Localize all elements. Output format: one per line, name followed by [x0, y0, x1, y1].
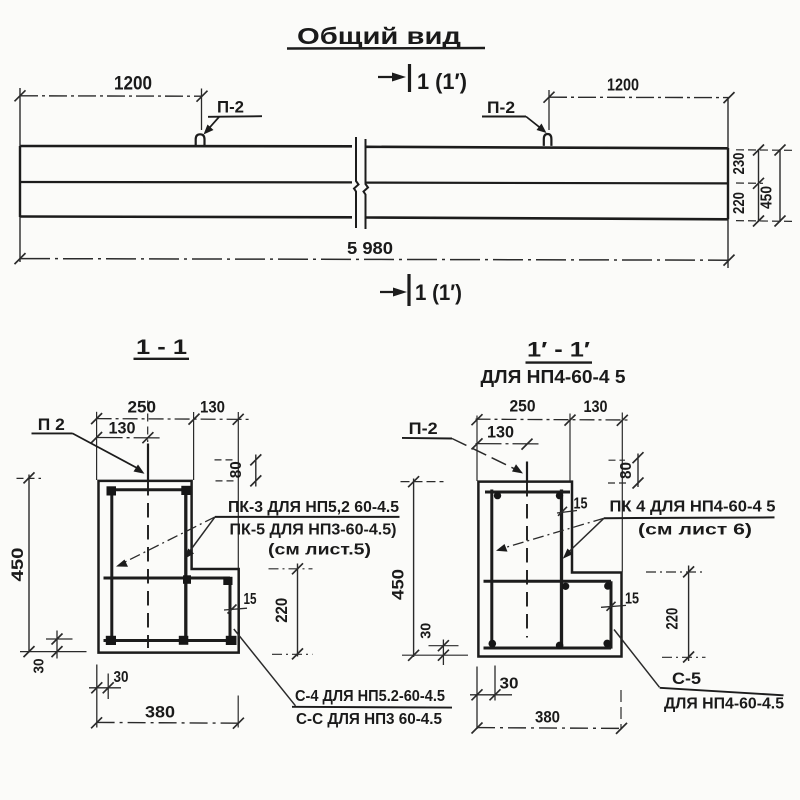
svg-text:15: 15: [244, 591, 257, 608]
labels ПК-3 / ПК-5 with leaders (section 1-1): [116, 499, 400, 567]
dimension 220 (section 1'-1'): [646, 566, 706, 663]
beam mid line: [20, 182, 728, 183]
svg-text:1200: 1200: [607, 75, 639, 95]
svg-text:1200: 1200: [114, 74, 152, 95]
stirrup mid bar (section 1-1): [104, 577, 231, 580]
svg-text:220: 220: [662, 608, 681, 630]
svg-text:130: 130: [109, 419, 136, 438]
dimension 380 (section 1'-1'): [472, 690, 628, 734]
rebar squares (section 1-1): [107, 486, 117, 495]
extension lines top dims (section 1-1): [96, 412, 98, 480]
stirrup mid bar (section 1'-1'): [484, 580, 612, 583]
svg-text:250: 250: [510, 397, 536, 416]
svg-text:220: 220: [272, 598, 291, 623]
svg-text:(см лист 6): (см лист 6): [638, 522, 752, 539]
svg-text:15: 15: [574, 496, 588, 513]
svg-text:Общий вид: Общий вид: [297, 23, 461, 49]
svg-text:П-2: П-2: [487, 99, 515, 117]
dimension 80 (section 1-1): [215, 454, 262, 486]
svg-text:П-2: П-2: [409, 420, 438, 438]
svg-text:ПК-3 ДЛЯ НП5,2 60-4.5: ПК-3 ДЛЯ НП5,2 60-4.5: [228, 499, 399, 516]
vertical center line (section 1'-1'): [526, 462, 528, 638]
dimension 30 lower-left vertical (section 1'-1'): [417, 623, 458, 665]
svg-text:380: 380: [145, 703, 175, 722]
dimension 380 (section 1-1): [91, 696, 244, 729]
svg-text:80: 80: [228, 461, 245, 478]
dimension 130 inner (section 1'-1'): [472, 423, 541, 450]
svg-text:С-4 ДЛЯ НП5.2-60-4.5: С-4 ДЛЯ НП5.2-60-4.5: [295, 688, 445, 705]
section 1'-1' concrete outline: [478, 482, 621, 657]
vertical center line (section 1-1): [147, 401, 149, 649]
stirrup lower-right leg (section 1-1): [229, 578, 232, 643]
svg-text:ДЛЯ НП4-60-4.5: ДЛЯ НП4-60-4.5: [664, 696, 784, 713]
dimension 80 (section 1'-1'): [608, 452, 644, 488]
dimension 15 (section 1-1): [224, 591, 257, 614]
label П 2 with leader (section 1-1): [32, 416, 145, 474]
stirrup top bar (section 1'-1'): [485, 491, 570, 494]
dimension 30 bottom (section 1-1): [89, 665, 129, 728]
svg-text:130: 130: [487, 423, 514, 442]
section 1-1 concrete outline: [99, 481, 239, 653]
lifting hook П-2 left: [196, 134, 205, 146]
svg-text:30: 30: [114, 669, 129, 686]
stirrup bottom bar (section 1-1): [104, 639, 232, 642]
dimension 15 upper (section 1'-1'): [557, 496, 588, 516]
svg-text:С-С ДЛЯ НП3 60-4.5: С-С ДЛЯ НП3 60-4.5: [296, 711, 442, 728]
title: Общий вид: [287, 23, 485, 49]
stirrup bottom bar (section 1'-1'): [484, 647, 612, 650]
dimension 450 (section 1'-1'): [388, 476, 468, 661]
label П-2 with leader (section 1'-1'): [402, 420, 523, 474]
stirrup left leg (section 1-1): [110, 488, 113, 643]
svg-text:1 (1′): 1 (1′): [417, 69, 467, 94]
stirrup right leg (section 1'-1'): [560, 490, 563, 649]
beam right edge + extension lines: [727, 97, 729, 268]
svg-text:450: 450: [759, 186, 776, 209]
lifting hook П-2 right: [544, 134, 552, 146]
svg-text:ДЛЯ НП4-60-4 5: ДЛЯ НП4-60-4 5: [481, 367, 626, 387]
svg-text:30: 30: [500, 676, 519, 693]
svg-text:П-2: П-2: [217, 99, 244, 117]
label П-2 left with leader: [204, 99, 263, 135]
section cut mark 1 (1') bottom: [380, 274, 462, 306]
break line right: [364, 139, 369, 229]
labels С-4 / С-С with leader (section 1-1): [234, 629, 452, 728]
svg-text:130: 130: [200, 398, 225, 417]
svg-text:450: 450: [388, 569, 407, 600]
labels С-5 with leader (section 1'-1'): [614, 630, 784, 713]
dimension 15 lower (section 1'-1'): [601, 591, 639, 611]
beam right side vertical dims 230/220 and 450: [731, 145, 792, 227]
svg-text:1′ - 1′: 1′ - 1′: [527, 339, 590, 362]
dimension 30 bottom (section 1'-1'): [470, 666, 519, 730]
dimension 5980: [15, 238, 735, 266]
svg-text:15: 15: [625, 591, 639, 608]
stirrup right leg (section 1-1): [184, 488, 187, 643]
svg-text:130: 130: [584, 397, 608, 416]
beam left edge + extension lines: [19, 88, 21, 262]
dimension 220 (section 1-1): [269, 563, 313, 659]
svg-text:С-5: С-5: [672, 670, 701, 688]
svg-text:380: 380: [535, 708, 560, 727]
svg-text:ПК 4 ДЛЯ НП4-60-4 5: ПК 4 ДЛЯ НП4-60-4 5: [610, 499, 776, 516]
beam outline: top edge: [20, 146, 728, 148]
rebar dots (section 1'-1'): [494, 492, 501, 499]
title 1'-1': [481, 339, 626, 388]
svg-text:30: 30: [30, 659, 47, 674]
svg-text:5 980: 5 980: [347, 238, 393, 258]
dimension 30 lower-left vertical (section 1-1): [30, 631, 72, 674]
svg-text:230: 230: [731, 152, 748, 174]
svg-text:30: 30: [417, 623, 434, 639]
svg-text:(см лист.5): (см лист.5): [268, 542, 371, 559]
dimension 1200 right: [544, 75, 735, 131]
stirrup top bar (section 1-1): [107, 488, 189, 491]
svg-text:1 (1′): 1 (1′): [415, 280, 462, 305]
svg-text:250: 250: [128, 398, 157, 417]
svg-text:220: 220: [731, 192, 748, 214]
title 1-1: [134, 336, 190, 359]
dimension 250 + 130 top (section 1'-1'): [472, 397, 632, 426]
svg-text:450: 450: [8, 548, 27, 582]
extension lines top dims (section 1'-1'): [476, 416, 478, 482]
stirrup left leg (section 1'-1'): [490, 490, 493, 649]
dimension 1200 left: [15, 74, 208, 131]
svg-text:80: 80: [618, 462, 635, 479]
labels ПК 4 with leaders (section 1'-1'): [496, 499, 776, 559]
svg-text:1 - 1: 1 - 1: [136, 336, 187, 359]
svg-text:П 2: П 2: [38, 416, 65, 434]
dimension 130 inner (section 1-1): [91, 419, 161, 444]
svg-text:ПК-5 ДЛЯ НП3-60-4.5): ПК-5 ДЛЯ НП3-60-4.5): [230, 522, 397, 539]
dimension 450 left (section 1-1): [8, 472, 87, 657]
stirrup lower-right leg (section 1'-1'): [610, 581, 613, 648]
section cut mark 1 (1') top: [378, 64, 467, 94]
break line left: [354, 137, 359, 228]
label П-2 right with leader: [482, 99, 547, 133]
dimension 250 + 130 top (section 1-1): [91, 398, 251, 425]
beam bottom edge: [20, 217, 728, 220]
